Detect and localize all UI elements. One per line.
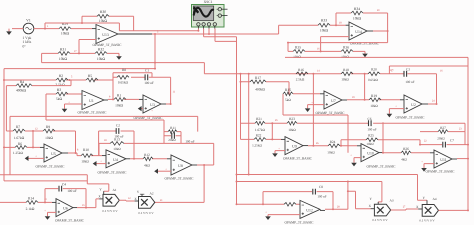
svg-text:OPAMP_3T_BASIC: OPAMP_3T_BASIC — [283, 157, 313, 161]
U4 out / resistor R12 — [126, 158, 130, 160]
A3 X feed — [348, 182, 371, 209]
capacitor C2 loop over U4 — [99, 131, 134, 159]
resistor R15 — [293, 93, 320, 95]
svg-text:OPAMP_3T_BASIC: OPAMP_3T_BASIC — [36, 165, 66, 169]
svg-text:C6: C6 — [368, 117, 372, 121]
svg-text:R1: R1 — [117, 93, 121, 97]
svg-text:R25: R25 — [368, 134, 374, 138]
op-amp U9 — [285, 137, 303, 155]
A2 Y input — [141, 194, 143, 196]
resistor R5 feedback — [86, 78, 98, 82]
U2 out — [422, 103, 428, 105]
left rail — [4, 69, 87, 181]
capacitor C6 — [369, 120, 372, 126]
svg-text:2.1kΩ: 2.1kΩ — [26, 207, 35, 211]
svg-text:R35: R35 — [295, 46, 301, 50]
resistor R31 — [42, 52, 119, 54]
svg-text:0.1 V/V 0 V: 0.1 V/V 0 V — [138, 211, 154, 215]
svg-text:R36: R36 — [343, 46, 349, 50]
svg-text:1.67kΩ: 1.67kΩ — [255, 128, 266, 132]
svg-text:XSC1: XSC1 — [204, 0, 213, 4]
svg-text:R19: R19 — [371, 94, 377, 98]
svg-text:10kΩ: 10kΩ — [61, 32, 70, 36]
svg-text:10kΩ: 10kΩ — [320, 28, 329, 32]
svg-text:A4: A4 — [432, 197, 436, 201]
svg-text:A1: A1 — [112, 188, 116, 192]
svg-text:1.25kΩ: 1.25kΩ — [252, 144, 262, 148]
op-amp U4 — [106, 150, 126, 168]
resistor R35 — [288, 50, 365, 52]
svg-text:R27: R27 — [440, 126, 446, 130]
node 1 wire up/over to opamp — [45, 23, 198, 31]
svg-text:10kΩ: 10kΩ — [366, 142, 374, 146]
svg-text:R10: R10 — [83, 148, 89, 152]
svg-text:R18: R18 — [343, 68, 349, 72]
svg-text:U9: U9 — [292, 145, 297, 149]
U13 output — [118, 33, 152, 35]
resistor R16 — [296, 72, 308, 76]
right top bus — [285, 57, 468, 210]
svg-text:U8: U8 — [178, 164, 183, 168]
svg-text:R5: R5 — [88, 74, 92, 78]
source V1 — [23, 23, 34, 34]
svg-text:U5: U5 — [51, 152, 56, 156]
svg-text:0.1 V/V 0 V: 0.1 V/V 0 V — [419, 219, 435, 223]
U14 out — [367, 30, 373, 32]
svg-text:U12: U12 — [306, 209, 313, 213]
resistor R2 — [4, 79, 113, 81]
svg-text:U3: U3 — [150, 103, 155, 107]
svg-text:R23: R23 — [289, 117, 295, 121]
svg-text:10kΩ: 10kΩ — [327, 150, 335, 154]
resistor R18 — [341, 72, 353, 76]
svg-text:U11: U11 — [440, 158, 446, 162]
svg-text:5kΩ: 5kΩ — [56, 97, 63, 101]
resistor R5b feedback over U4 — [99, 143, 214, 165]
svg-text:C8: C8 — [319, 185, 323, 189]
A1 out to A2 — [119, 199, 134, 202]
svg-text:5kΩ: 5kΩ — [285, 98, 291, 102]
svg-text:R2: R2 — [59, 74, 63, 78]
svg-text:R7: R7 — [16, 125, 20, 129]
ground G1 — [8, 29, 10, 32]
multiplier A3 — [374, 204, 390, 216]
svg-text:1 Vpk: 1 Vpk — [23, 36, 32, 40]
op-amp U10 — [361, 144, 379, 162]
U13 + input to R31 — [79, 40, 96, 54]
svg-text:0.1 V/V 0 V: 0.1 V/V 0 V — [372, 218, 388, 222]
svg-text:10kΩ: 10kΩ — [81, 160, 89, 164]
multiplier A4 — [422, 205, 438, 217]
svg-text:A2: A2 — [149, 191, 153, 195]
svg-text:400kΩ: 400kΩ — [255, 87, 265, 91]
svg-text:2.5kΩ: 2.5kΩ — [55, 83, 64, 87]
U8 + ground left — [158, 170, 171, 172]
U10 + ground — [354, 158, 361, 163]
A4 out — [439, 159, 469, 211]
svg-text:10kΩ: 10kΩ — [353, 16, 362, 20]
svg-text:10kΩ: 10kΩ — [370, 104, 378, 108]
op-amp U1 — [82, 91, 104, 110]
U1 + ground — [65, 104, 83, 109]
svg-text:R30: R30 — [100, 10, 106, 14]
svg-text:R16: R16 — [298, 68, 304, 72]
svg-text:OPAMP_3T_BASIC: OPAMP_3T_BASIC — [93, 43, 123, 47]
svg-text:R6: R6 — [18, 142, 22, 146]
multiplier A2 — [139, 197, 155, 209]
svg-text:C4: C4 — [62, 182, 66, 186]
resistor R28 — [237, 203, 301, 205]
op-amp U3 — [143, 95, 161, 113]
svg-text:0°: 0° — [23, 45, 27, 49]
U12 + ground — [268, 215, 300, 217]
A3 out to A4 — [391, 209, 419, 210]
resistor R29 — [59, 27, 71, 31]
scope terminals — [197, 26, 199, 29]
svg-text:U6: U6 — [63, 207, 68, 211]
svg-text:R8: R8 — [122, 68, 126, 72]
svg-text:100 nF: 100 nF — [317, 195, 326, 199]
svg-text:R32: R32 — [98, 48, 104, 52]
U7 out / resistor R19 — [342, 99, 347, 101]
svg-text:U4: U4 — [113, 158, 118, 162]
op-amp U8 — [171, 155, 192, 175]
wire V1 row — [12, 28, 92, 30]
resistor R6 — [4, 146, 40, 148]
capacitor C3 — [404, 71, 407, 77]
svg-text:R11: R11 — [170, 126, 176, 130]
op-amp U11 — [434, 150, 452, 168]
oscilloscope XSC1 — [192, 5, 225, 28]
resistor R20 — [368, 72, 380, 76]
wire row y42.6 — [288, 43, 388, 52]
resistor R21 — [241, 122, 314, 124]
resistor R7 — [6, 130, 75, 132]
svg-text:R24: R24 — [330, 140, 336, 144]
op-amp U14 — [349, 22, 367, 40]
svg-text:10kΩ: 10kΩ — [341, 78, 349, 82]
U9 + ground — [275, 151, 285, 154]
A2 output wire — [155, 165, 204, 202]
svg-text:C3: C3 — [406, 67, 410, 71]
resistor R17 — [241, 82, 290, 94]
U7 + ground — [308, 105, 324, 109]
op-amp U2 — [404, 95, 422, 113]
scope wires — [198, 29, 236, 205]
svg-text:400kΩ: 400kΩ — [16, 89, 26, 93]
resistor R32 — [95, 52, 107, 56]
svg-text:OPAMP_3T_BASIC: OPAMP_3T_BASIC — [426, 169, 456, 173]
svg-text:10kΩ: 10kΩ — [113, 147, 121, 151]
svg-text:R31: R31 — [60, 48, 66, 52]
svg-text:U13: U13 — [102, 33, 109, 37]
svg-text:OPAMP_3T_BASIC: OPAMP_3T_BASIC — [98, 171, 128, 175]
resistor R22 — [241, 74, 282, 140]
U1 out / resistor R1 — [104, 99, 108, 101]
svg-text:R22: R22 — [256, 134, 262, 138]
svg-text:U14: U14 — [355, 30, 362, 34]
svg-text:10kΩ: 10kΩ — [59, 57, 68, 61]
svg-text:0.65kΩ: 0.65kΩ — [118, 81, 129, 85]
svg-text:A3: A3 — [389, 199, 393, 203]
svg-text:OPAMP_3T_BASIC: OPAMP_3T_BASIC — [367, 164, 397, 168]
svg-text:R3: R3 — [57, 88, 61, 92]
resistor R34 feedback — [336, 13, 388, 43]
op-amp U13 — [96, 25, 118, 44]
U12 out — [320, 209, 325, 211]
resistor R23 — [287, 121, 297, 125]
U8 out down to A2 out node — [192, 164, 197, 166]
wire jog below R31 — [42, 53, 205, 62]
U4 + ground left — [97, 163, 107, 165]
U5 out / resistor R10 — [62, 152, 68, 154]
svg-text:R20: R20 — [371, 67, 377, 71]
svg-text:R34: R34 — [354, 7, 360, 11]
svg-text:100 nF: 100 nF — [144, 81, 154, 85]
svg-text:100 nF: 100 nF — [67, 189, 77, 193]
resistor R4 — [6, 80, 71, 131]
svg-text:100 nF: 100 nF — [185, 140, 194, 144]
svg-text:10kΩ: 10kΩ — [45, 136, 53, 140]
main bus left — [4, 34, 437, 74]
svg-text:U1: U1 — [89, 99, 94, 103]
capacitor C4 feedback — [45, 189, 86, 208]
svg-text:U2: U2 — [411, 103, 416, 107]
capacitor C7 — [420, 144, 468, 146]
svg-text:10kΩ: 10kΩ — [115, 104, 123, 108]
svg-text:C2: C2 — [116, 123, 120, 127]
svg-text:R9: R9 — [46, 125, 50, 129]
U3 + ground left — [142, 108, 143, 110]
svg-text:4kΩ: 4kΩ — [401, 157, 407, 161]
svg-text:OPAMP_3T_BASIC: OPAMP_3T_BASIC — [165, 176, 195, 180]
op-amp U12 — [300, 200, 320, 218]
svg-text:OPAMP_3T_BASIC: OPAMP_3T_BASIC — [396, 115, 426, 119]
U14 + input — [321, 37, 349, 52]
svg-text:OPAMP_3T_BASIC: OPAMP_3T_BASIC — [78, 110, 108, 114]
resistor R3 — [46, 94, 164, 132]
bus to A1 Y input — [0, 175, 109, 192]
svg-text:1.25kΩ: 1.25kΩ — [13, 151, 24, 155]
svg-text:V1: V1 — [26, 19, 31, 23]
resistor R14 — [0, 201, 52, 203]
op-amp U7 — [324, 91, 342, 109]
U5 + ground left — [29, 157, 45, 159]
cross coupling to R33 — [279, 25, 346, 34]
resistor R9 — [43, 129, 55, 133]
U10 out / resistor R26 — [379, 152, 383, 154]
op-amp U5 — [44, 144, 62, 162]
svg-text:2.5kΩ: 2.5kΩ — [296, 78, 305, 82]
resistor R11 / capacitor C2b feedback of U8 — [163, 120, 165, 143]
svg-text:OPAMP_3T_BASIC: OPAMP_3T_BASIC — [316, 111, 346, 115]
svg-text:R21: R21 — [256, 117, 262, 121]
capacitor C8 feedback — [263, 192, 333, 210]
svg-text:100 nF: 100 nF — [114, 135, 123, 139]
svg-text:OPAMP_3T_BASIC: OPAMP_3T_BASIC — [285, 220, 315, 224]
U3 out — [161, 103, 166, 105]
U11 out — [452, 158, 457, 160]
svg-text:1.67kΩ: 1.67kΩ — [14, 136, 25, 140]
R8/C1 feedback branch — [113, 73, 171, 104]
svg-text:10kΩ: 10kΩ — [288, 128, 296, 132]
svg-text:R17: R17 — [255, 76, 261, 80]
ground at R32 — [118, 53, 120, 56]
svg-text:C7: C7 — [450, 139, 454, 143]
capacitor C1 — [145, 74, 148, 80]
svg-text:0.1 V/V 0 V: 0.1 V/V 0 V — [102, 209, 118, 213]
Y feed bus y174.5 — [237, 74, 428, 200]
svg-text:U10: U10 — [367, 152, 374, 156]
svg-text:R33: R33 — [321, 19, 327, 23]
svg-text:1 kHz: 1 kHz — [23, 40, 32, 44]
svg-text:4kΩ: 4kΩ — [144, 163, 150, 167]
resistor R27 feedback — [420, 132, 465, 145]
svg-text:R14: R14 — [28, 197, 34, 201]
wire bus y181.5 — [237, 182, 382, 202]
svg-text:10kΩ: 10kΩ — [97, 57, 106, 61]
multiplier A1 — [103, 194, 119, 206]
resistor R25 feedback — [341, 140, 420, 146]
ground at R36 — [364, 51, 366, 53]
svg-text:10kΩ: 10kΩ — [99, 19, 108, 23]
resistor R36 — [341, 50, 353, 54]
svg-text:OPAMP_3T_BASIC: OPAMP_3T_BASIC — [55, 218, 85, 222]
resistor R30 feedback — [82, 16, 134, 30]
svg-text:R12: R12 — [144, 153, 150, 157]
U11 + ground — [424, 164, 434, 168]
U6 + ground — [48, 212, 57, 216]
svg-text:C1: C1 — [145, 69, 149, 73]
svg-text:R26: R26 — [403, 147, 409, 151]
svg-text:U7: U7 — [331, 99, 336, 103]
op-amp U6 — [56, 199, 73, 217]
svg-text:0.65kΩ: 0.65kΩ — [368, 78, 378, 82]
resistor R33 — [318, 23, 330, 27]
U6 out to A1 — [73, 207, 77, 209]
mid bus — [10, 94, 348, 175]
svg-text:R15: R15 — [285, 88, 291, 92]
U2 + ground — [389, 109, 404, 114]
svg-text:100 nF: 100 nF — [405, 80, 414, 84]
svg-text:20kΩ: 20kΩ — [437, 137, 445, 141]
svg-text:R4: R4 — [20, 80, 24, 84]
svg-text:100 nF: 100 nF — [367, 127, 376, 131]
U9 out / resistor R24 — [303, 145, 308, 147]
